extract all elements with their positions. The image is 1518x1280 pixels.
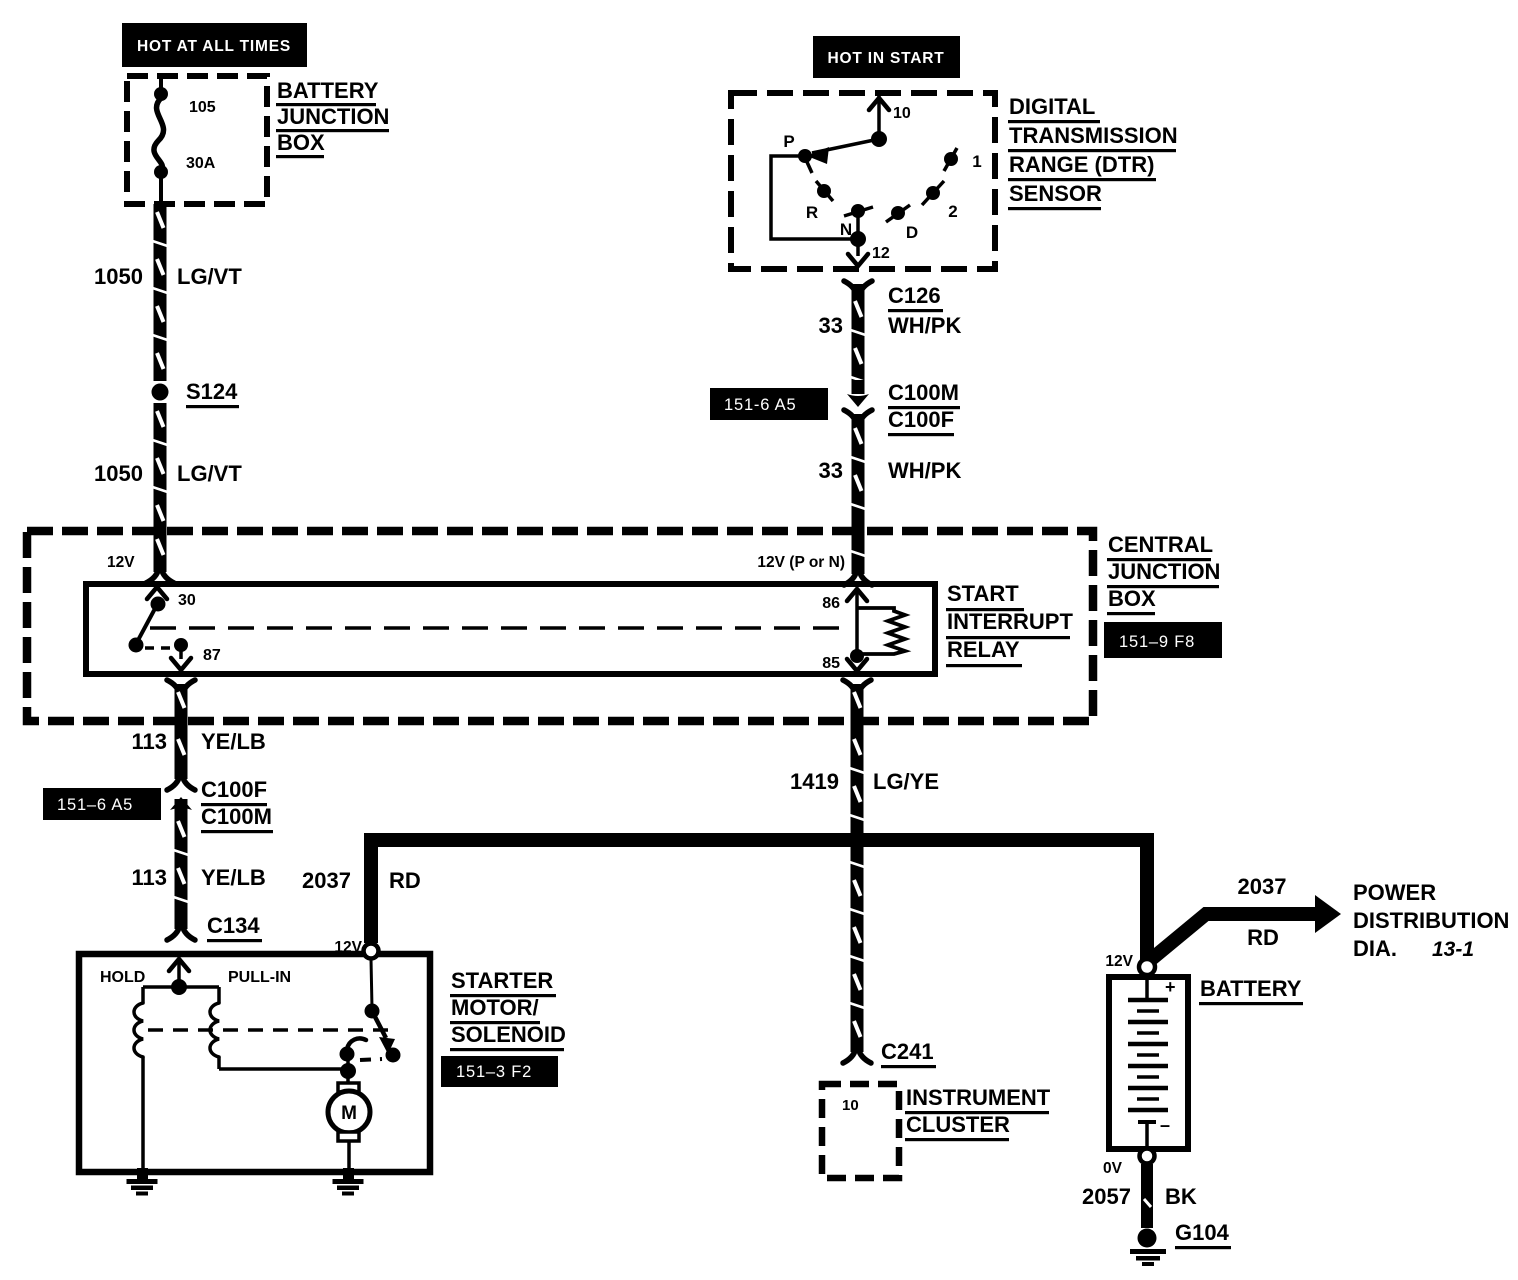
svg-text:PULL-IN: PULL-IN (228, 969, 291, 986)
wire 1050 LG/VT lower (154, 403, 167, 572)
svg-text:113: 113 (132, 729, 168, 754)
svg-text:12V: 12V (1105, 953, 1133, 970)
svg-text:1419: 1419 (790, 769, 839, 794)
ground (motor) (343, 1168, 354, 1180)
svg-text:LG/VT: LG/VT (177, 264, 242, 289)
wire 2057 BK (1141, 1164, 1153, 1228)
svg-text:1: 1 (972, 152, 981, 171)
svg-text:LG/VT: LG/VT (177, 461, 242, 486)
relay linkage (dashed) (150, 626, 848, 630)
svg-text:1050: 1050 (94, 264, 143, 289)
label 151-6 A5 (top) (710, 388, 828, 420)
connector C100F C100M (left) (170, 797, 192, 810)
label 151-3 F2 (441, 1056, 558, 1087)
pull-in coil (217, 987, 221, 1003)
svg-text:JUNCTION: JUNCTION (1108, 559, 1220, 584)
svg-text:D: D (906, 223, 918, 242)
label 151-9 F8 (1104, 622, 1222, 658)
svg-text:30A: 30A (186, 155, 216, 172)
DTR contact P (798, 149, 812, 163)
svg-text:HOLD: HOLD (100, 969, 145, 986)
battery junction box (127, 76, 267, 204)
DTR node N junction (850, 231, 866, 247)
starter input pin (from C134) (169, 959, 189, 971)
svg-text:YE/LB: YE/LB (201, 865, 266, 890)
svg-text:SENSOR: SENSOR (1009, 181, 1102, 206)
DTR wiper from pin 10 to P (812, 139, 879, 153)
svg-text:0V: 0V (1103, 1160, 1123, 1177)
svg-text:C241: C241 (881, 1039, 934, 1064)
svg-text:1050: 1050 (94, 461, 143, 486)
svg-text:33: 33 (819, 313, 843, 338)
svg-text:RELAY: RELAY (947, 637, 1020, 662)
svg-text:BATTERY: BATTERY (1200, 976, 1302, 1001)
svg-text:151–6 A5: 151–6 A5 (57, 796, 133, 814)
svg-text:12V (P or N): 12V (P or N) (757, 554, 845, 571)
wire 2037 RD (364, 833, 378, 943)
svg-text:START: START (947, 581, 1019, 606)
label HOT AT ALL TIMES (122, 23, 307, 67)
svg-text:BK: BK (1165, 1184, 1197, 1209)
svg-text:YE/LB: YE/LB (201, 729, 266, 754)
svg-text:LG/YE: LG/YE (873, 769, 939, 794)
DTR contact N (851, 204, 865, 218)
relay blade-to-87 dashed (145, 646, 172, 650)
svg-text:12V: 12V (334, 939, 362, 956)
DTR pin 12 (856, 239, 860, 256)
starter coil feed junction (171, 979, 187, 995)
svg-text:151–3 F2: 151–3 F2 (456, 1063, 532, 1081)
svg-text:85: 85 (822, 655, 840, 672)
relay coil (857, 608, 905, 654)
motor M (338, 1083, 359, 1092)
DTR P-N loop wire (771, 156, 858, 239)
svg-text:87: 87 (203, 647, 221, 664)
svg-text:CLUSTER: CLUSTER (906, 1112, 1010, 1137)
relay pin 87 (174, 638, 188, 652)
svg-text:C126: C126 (888, 283, 941, 308)
DTR contact R (817, 184, 831, 198)
svg-text:2: 2 (948, 202, 957, 221)
svg-text:SOLENOID: SOLENOID (451, 1022, 566, 1047)
solenoid linkage (dashed) (148, 1028, 388, 1032)
svg-text:2037: 2037 (1238, 874, 1287, 899)
svg-text:RD: RD (1247, 925, 1279, 950)
svg-text:R: R (806, 203, 818, 222)
start interrupt relay box (86, 584, 935, 674)
svg-text:C100M: C100M (201, 804, 272, 829)
svg-text:12V: 12V (107, 554, 135, 571)
battery box (1109, 977, 1188, 1149)
starter motor/solenoid box (79, 954, 430, 1172)
connector C126 (844, 281, 857, 295)
svg-text:151–9 F8: 151–9 F8 (1119, 633, 1195, 651)
svg-text:DIGITAL: DIGITAL (1009, 94, 1095, 119)
wire 113 YE/LB upper (167, 680, 180, 694)
instrument cluster box (822, 1084, 899, 1178)
ground (hold coil) (137, 1168, 148, 1180)
svg-text:P: P (783, 132, 794, 151)
svg-text:RD: RD (389, 868, 421, 893)
relay pin 30 (147, 587, 167, 599)
svg-text:S124: S124 (186, 379, 238, 404)
svg-text:MOTOR/: MOTOR/ (451, 995, 539, 1020)
wire 33 WH/PK lower (852, 420, 865, 574)
svg-text:G104: G104 (1175, 1220, 1230, 1245)
svg-text:RANGE (DTR): RANGE (DTR) (1009, 152, 1154, 177)
svg-text:2057: 2057 (1082, 1184, 1131, 1209)
svg-text:DIA.: DIA. (1353, 936, 1397, 961)
label 151-6 A5 (left) (43, 788, 161, 820)
wire 1419 LG/YE (843, 680, 856, 694)
svg-text:C100M: C100M (888, 380, 959, 405)
svg-text:BOX: BOX (1108, 586, 1156, 611)
svg-text:CENTRAL: CENTRAL (1108, 532, 1213, 557)
svg-text:DISTRIBUTION: DISTRIBUTION (1353, 908, 1509, 933)
DTR sensor box (731, 93, 995, 269)
DTR contact D (891, 206, 905, 220)
svg-text:STARTER: STARTER (451, 968, 553, 993)
svg-text:10: 10 (842, 1097, 859, 1114)
fuse 105 30A (159, 79, 163, 92)
svg-text:33: 33 (819, 458, 843, 483)
solenoid switch (371, 959, 372, 1008)
svg-text:WH/PK: WH/PK (888, 313, 961, 338)
svg-text:30: 30 (178, 592, 196, 609)
svg-text:BOX: BOX (277, 130, 325, 155)
svg-text:12: 12 (872, 245, 890, 262)
svg-text:TRANSMISSION: TRANSMISSION (1009, 123, 1178, 148)
wire 33 WH/PK upper (852, 293, 865, 392)
svg-text:JUNCTION: JUNCTION (277, 104, 389, 129)
connector C100M C100F (right) (852, 380, 865, 394)
battery cells (1145, 980, 1149, 999)
svg-text:2037: 2037 (302, 868, 351, 893)
DTR contact 2 (926, 186, 940, 200)
solenoid contact junction (340, 1063, 356, 1079)
svg-text:–: – (1160, 1115, 1170, 1135)
DTR contact 1 (944, 152, 958, 166)
wire 113 YE/LB lower (175, 805, 188, 929)
label HOT IN START (813, 36, 960, 78)
svg-text:105: 105 (189, 99, 216, 116)
relay switch blade (136, 603, 158, 644)
svg-text:86: 86 (822, 595, 840, 612)
svg-text:C100F: C100F (201, 777, 267, 802)
svg-text:INSTRUMENT: INSTRUMENT (906, 1085, 1051, 1110)
svg-text:INTERRUPT: INTERRUPT (947, 609, 1073, 634)
wire 12V entry into CJB (left) (154, 531, 167, 572)
svg-text:13-1: 13-1 (1432, 938, 1474, 961)
wire 1050 LG/VT upper (154, 204, 167, 381)
central junction box (27, 531, 1093, 721)
svg-text:+: + (1165, 977, 1176, 997)
relay pin 86 (847, 589, 867, 601)
svg-text:113: 113 (132, 865, 168, 890)
svg-text:POWER: POWER (1353, 880, 1436, 905)
svg-text:C134: C134 (207, 913, 260, 938)
svg-text:M: M (341, 1103, 357, 1124)
DTR pin 10 (869, 98, 889, 110)
svg-text:C100F: C100F (888, 407, 954, 432)
splice S124 (152, 384, 169, 401)
svg-text:10: 10 (893, 105, 911, 122)
svg-text:WH/PK: WH/PK (888, 458, 961, 483)
svg-text:BATTERY: BATTERY (277, 78, 379, 103)
svg-text:HOT AT ALL TIMES: HOT AT ALL TIMES (137, 38, 291, 55)
relay pin 85 (850, 649, 864, 663)
ground G104 (1138, 1229, 1157, 1248)
svg-text:N: N (840, 220, 852, 239)
wire 12V entry into CJB (right) (844, 571, 857, 585)
svg-text:HOT IN START: HOT IN START (828, 50, 945, 67)
hold coil (141, 987, 145, 1003)
svg-text:151-6 A5: 151-6 A5 (724, 396, 796, 414)
